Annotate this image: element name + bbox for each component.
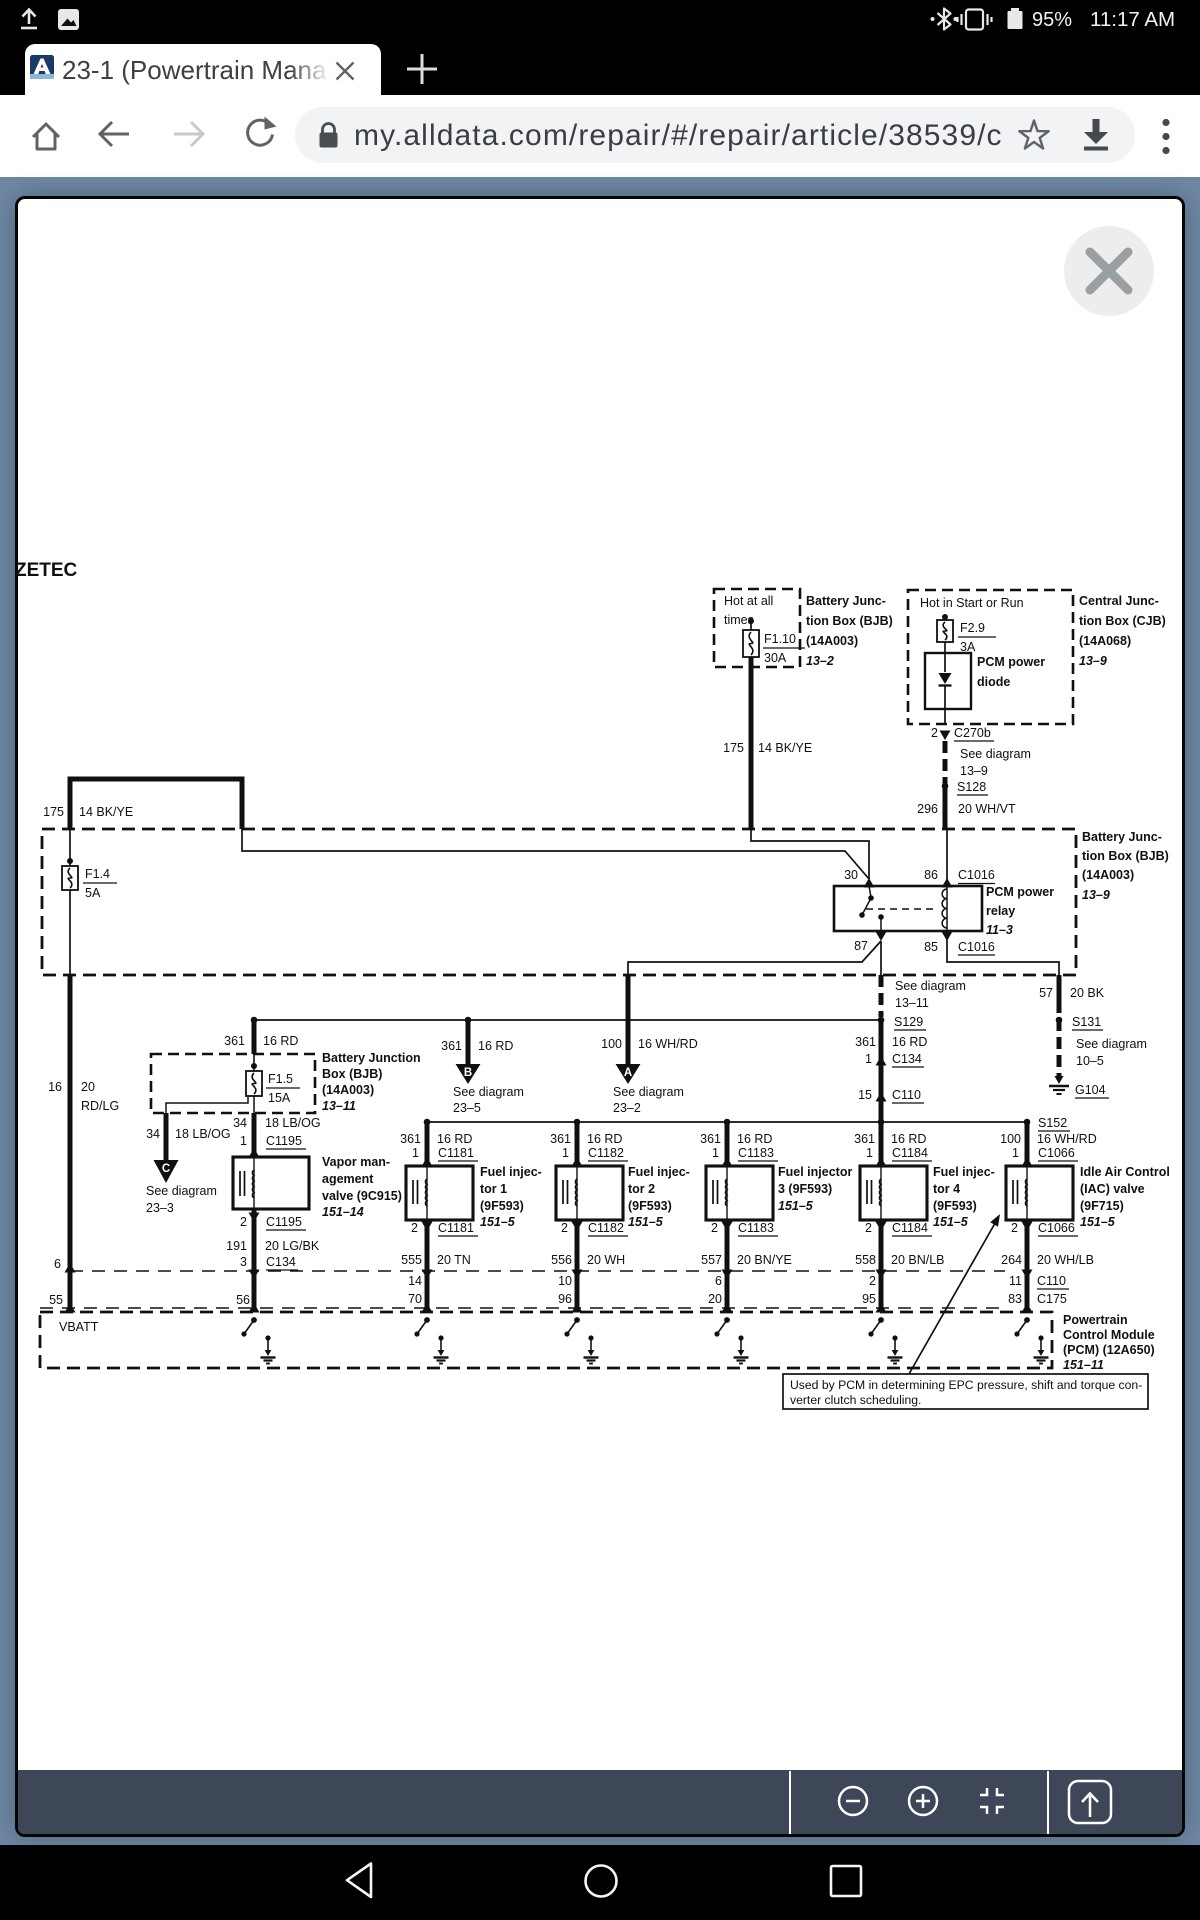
svg-text:C1016: C1016 [958, 940, 995, 954]
svg-text:95: 95 [862, 1292, 876, 1306]
svg-text:151–5: 151–5 [1080, 1215, 1116, 1229]
svg-text:2: 2 [561, 1221, 568, 1235]
svg-text:relay: relay [986, 904, 1015, 918]
svg-text:87: 87 [854, 939, 868, 953]
svg-text:C1183: C1183 [738, 1221, 774, 1235]
svg-text:Vapor man-: Vapor man- [322, 1155, 390, 1169]
svg-text:tion Box (BJB): tion Box (BJB) [806, 614, 893, 628]
svg-text:556: 556 [551, 1253, 572, 1267]
svg-text:S152: S152 [1038, 1116, 1067, 1130]
svg-text:Central Junc-: Central Junc- [1079, 594, 1159, 608]
svg-text:F2.9: F2.9 [960, 621, 985, 635]
svg-text:Hot at all: Hot at all [724, 594, 773, 608]
svg-text:(IAC) valve: (IAC) valve [1080, 1182, 1145, 1196]
svg-text:(9F593): (9F593) [480, 1199, 524, 1213]
svg-text:F1.4: F1.4 [85, 867, 110, 881]
svg-text:151–14: 151–14 [322, 1205, 364, 1219]
svg-text:C1066: C1066 [1038, 1146, 1075, 1160]
svg-text:30A: 30A [764, 651, 787, 665]
svg-text:16 RD: 16 RD [478, 1039, 513, 1053]
svg-text:16 RD: 16 RD [263, 1034, 298, 1048]
svg-text:14 BK/YE: 14 BK/YE [79, 805, 133, 819]
svg-text:Control Module: Control Module [1063, 1328, 1155, 1342]
svg-text:151–5: 151–5 [628, 1215, 664, 1229]
svg-text:F1.5: F1.5 [268, 1072, 293, 1086]
svg-text:20: 20 [81, 1080, 95, 1094]
svg-text:Fuel injec-: Fuel injec- [933, 1165, 995, 1179]
svg-text:14: 14 [408, 1274, 422, 1288]
svg-text:151–11: 151–11 [1063, 1358, 1104, 1372]
svg-text:tion Box (BJB): tion Box (BJB) [1082, 849, 1169, 863]
svg-text:PCM power: PCM power [977, 655, 1045, 669]
svg-text:Battery Junction: Battery Junction [322, 1051, 421, 1065]
svg-text:verter clutch scheduling.: verter clutch scheduling. [790, 1393, 921, 1407]
svg-text:16 WH/RD: 16 WH/RD [1037, 1132, 1097, 1146]
svg-text:C1066: C1066 [1038, 1221, 1075, 1235]
svg-text:(14A003): (14A003) [322, 1083, 374, 1097]
svg-text:11: 11 [1009, 1274, 1022, 1288]
svg-text:C1184: C1184 [892, 1221, 928, 1235]
svg-text:57: 57 [1039, 986, 1053, 1000]
svg-text:2: 2 [411, 1221, 418, 1235]
svg-text:2: 2 [931, 726, 938, 740]
svg-text:2: 2 [865, 1221, 872, 1235]
svg-text:96: 96 [558, 1292, 572, 1306]
svg-text:C1181: C1181 [438, 1221, 474, 1235]
svg-text:361: 361 [224, 1034, 245, 1048]
svg-text:14 BK/YE: 14 BK/YE [758, 741, 812, 755]
svg-text:20 TN: 20 TN [437, 1253, 471, 1267]
svg-text:S129: S129 [894, 1015, 923, 1029]
svg-text:16 RD: 16 RD [437, 1132, 472, 1146]
svg-text:361: 361 [855, 1035, 876, 1049]
svg-text:Idle Air Control: Idle Air Control [1080, 1165, 1170, 1179]
svg-text:F1.10: F1.10 [764, 632, 796, 646]
svg-text:2: 2 [869, 1274, 876, 1288]
svg-text:tor 2: tor 2 [628, 1182, 655, 1196]
svg-text:16 RD: 16 RD [737, 1132, 772, 1146]
svg-text:23–3: 23–3 [146, 1201, 174, 1215]
svg-text:Fuel injec-: Fuel injec- [628, 1165, 690, 1179]
svg-text:16 RD: 16 RD [892, 1035, 927, 1049]
svg-text:20 BK: 20 BK [1070, 986, 1105, 1000]
svg-text:See diagram: See diagram [146, 1184, 217, 1198]
svg-text:95%: 95% [1032, 9, 1072, 31]
svg-text:555: 555 [401, 1253, 422, 1267]
svg-text:C110: C110 [892, 1088, 921, 1102]
svg-text:C1181: C1181 [438, 1146, 474, 1160]
svg-text:ZETEC: ZETEC [15, 560, 78, 581]
svg-text:86: 86 [924, 868, 938, 882]
svg-text:C1195: C1195 [266, 1215, 302, 1229]
svg-text:13–11: 13–11 [322, 1099, 356, 1113]
svg-text:23–2: 23–2 [613, 1101, 641, 1115]
svg-text:18 LB/OG: 18 LB/OG [175, 1127, 231, 1141]
svg-text:83: 83 [1008, 1292, 1022, 1306]
svg-text:5A: 5A [85, 886, 101, 900]
svg-text:20 WH/LB: 20 WH/LB [1037, 1253, 1094, 1267]
svg-text:Battery Junc-: Battery Junc- [1082, 830, 1162, 844]
svg-text:20: 20 [708, 1292, 722, 1306]
svg-text:13–9: 13–9 [1082, 888, 1110, 902]
svg-text:13–9: 13–9 [1079, 654, 1107, 668]
svg-text:100: 100 [601, 1037, 622, 1051]
svg-text:C1182: C1182 [588, 1221, 624, 1235]
svg-text:1: 1 [712, 1146, 719, 1160]
svg-text:16: 16 [48, 1080, 62, 1094]
svg-text:20 BN/YE: 20 BN/YE [737, 1253, 792, 1267]
svg-text:70: 70 [408, 1292, 422, 1306]
svg-text:VBATT: VBATT [59, 1320, 99, 1334]
svg-text:tor 1: tor 1 [480, 1182, 507, 1196]
svg-text:557: 557 [701, 1253, 722, 1267]
svg-text:See diagram: See diagram [895, 979, 966, 993]
svg-text:264: 264 [1001, 1253, 1022, 1267]
svg-text:(14A003): (14A003) [1082, 868, 1134, 882]
svg-text:1: 1 [412, 1146, 419, 1160]
svg-text:C110: C110 [1037, 1274, 1066, 1288]
svg-text:30: 30 [844, 868, 858, 882]
svg-text:175: 175 [723, 741, 744, 755]
svg-text:agement: agement [322, 1172, 374, 1186]
svg-text:Fuel injec-: Fuel injec- [480, 1165, 542, 1179]
svg-text:296: 296 [917, 802, 938, 816]
svg-text:(9F593): (9F593) [628, 1199, 672, 1213]
svg-text:A: A [624, 1067, 632, 1079]
svg-text:Hot in Start or Run: Hot in Start or Run [920, 596, 1024, 610]
svg-text:C134: C134 [892, 1052, 922, 1066]
svg-text:100: 100 [1000, 1132, 1021, 1146]
svg-text:34: 34 [146, 1127, 160, 1141]
svg-text:C270b: C270b [954, 726, 991, 740]
svg-text:See diagram: See diagram [1076, 1037, 1147, 1051]
svg-text:85: 85 [924, 940, 938, 954]
svg-text:23–5: 23–5 [453, 1101, 481, 1115]
svg-text:(14A068): (14A068) [1079, 634, 1131, 648]
svg-text:361: 361 [400, 1132, 421, 1146]
svg-text:11–3: 11–3 [986, 923, 1013, 937]
svg-text:See diagram: See diagram [960, 747, 1031, 761]
svg-text:C: C [162, 1163, 170, 1175]
svg-text:C1182: C1182 [588, 1146, 624, 1160]
svg-text:Fuel injector: Fuel injector [778, 1165, 852, 1179]
svg-text:10: 10 [558, 1274, 572, 1288]
svg-text:(PCM) (12A650): (PCM) (12A650) [1063, 1343, 1155, 1357]
svg-text:PCM power: PCM power [986, 885, 1054, 899]
svg-text:See diagram: See diagram [453, 1085, 524, 1099]
svg-text:20 WH: 20 WH [587, 1253, 625, 1267]
svg-text:361: 361 [550, 1132, 571, 1146]
svg-text:151–5: 151–5 [933, 1215, 969, 1229]
svg-text:1: 1 [1012, 1146, 1019, 1160]
svg-text:15: 15 [858, 1088, 872, 1102]
svg-text:13–9: 13–9 [960, 764, 988, 778]
svg-text:361: 361 [700, 1132, 721, 1146]
svg-text:Box (BJB): Box (BJB) [322, 1067, 382, 1081]
svg-text:15A: 15A [268, 1091, 291, 1105]
svg-text:2: 2 [1011, 1221, 1018, 1235]
svg-text:Powertrain: Powertrain [1063, 1313, 1128, 1327]
svg-text:C1016: C1016 [958, 868, 995, 882]
svg-text:RD/LG: RD/LG [81, 1099, 119, 1113]
svg-text:34: 34 [233, 1116, 247, 1130]
svg-text:2: 2 [711, 1221, 718, 1235]
svg-text:1: 1 [562, 1146, 569, 1160]
svg-text:Battery Junc-: Battery Junc- [806, 594, 886, 608]
svg-text:16 RD: 16 RD [891, 1132, 926, 1146]
svg-text:23-1 (Powertrain Mana: 23-1 (Powertrain Mana [62, 55, 327, 85]
svg-text:tor 4: tor 4 [933, 1182, 960, 1196]
svg-text:S131: S131 [1072, 1015, 1101, 1029]
svg-text:20 BN/LB: 20 BN/LB [891, 1253, 945, 1267]
svg-text:361: 361 [854, 1132, 875, 1146]
svg-text:(9F593): (9F593) [933, 1199, 977, 1213]
svg-text:11:17 AM: 11:17 AM [1090, 8, 1175, 31]
svg-text:175: 175 [43, 805, 64, 819]
svg-text:B: B [464, 1067, 472, 1079]
svg-text:valve (9C915): valve (9C915) [322, 1189, 402, 1203]
svg-text:13–11: 13–11 [895, 996, 929, 1010]
svg-text:151–5: 151–5 [778, 1199, 814, 1213]
svg-text:2: 2 [240, 1215, 247, 1229]
svg-text:55: 55 [49, 1293, 63, 1307]
svg-text:C1183: C1183 [738, 1146, 774, 1160]
svg-text:1: 1 [866, 1146, 873, 1160]
svg-text:G104: G104 [1075, 1083, 1106, 1097]
svg-text:diode: diode [977, 675, 1010, 689]
svg-text:C1195: C1195 [266, 1134, 302, 1148]
svg-text:151–5: 151–5 [480, 1215, 516, 1229]
svg-text:3: 3 [240, 1255, 247, 1269]
svg-text:1: 1 [865, 1052, 872, 1066]
svg-text:6: 6 [715, 1274, 722, 1288]
svg-text:(14A003): (14A003) [806, 634, 858, 648]
svg-text:See diagram: See diagram [613, 1085, 684, 1099]
svg-text:C175: C175 [1037, 1292, 1067, 1306]
svg-text:1: 1 [240, 1134, 247, 1148]
svg-text:(9F715): (9F715) [1080, 1199, 1124, 1213]
svg-text:20 WH/VT: 20 WH/VT [958, 802, 1016, 816]
svg-text:C1184: C1184 [892, 1146, 928, 1160]
svg-text:6: 6 [54, 1257, 61, 1271]
svg-text:Used by PCM in determining EPC: Used by PCM in determining EPC pressure,… [790, 1378, 1142, 1392]
svg-text:18 LB/OG: 18 LB/OG [265, 1116, 321, 1130]
svg-text:191: 191 [226, 1239, 247, 1253]
svg-text:558: 558 [855, 1253, 876, 1267]
svg-text:tion Box (CJB): tion Box (CJB) [1079, 614, 1166, 628]
svg-text:20 LG/BK: 20 LG/BK [265, 1239, 320, 1253]
svg-text:3 (9F593): 3 (9F593) [778, 1182, 832, 1196]
svg-text:my.alldata.com/repair/#/repair: my.alldata.com/repair/#/repair/article/3… [354, 119, 1003, 152]
svg-text:56: 56 [236, 1293, 250, 1307]
svg-text:16 RD: 16 RD [587, 1132, 622, 1146]
svg-text:16 WH/RD: 16 WH/RD [638, 1037, 698, 1051]
svg-text:13–2: 13–2 [806, 654, 834, 668]
svg-text:S128: S128 [957, 780, 986, 794]
svg-text:361: 361 [441, 1039, 462, 1053]
svg-text:C134: C134 [266, 1255, 296, 1269]
svg-text:10–5: 10–5 [1076, 1054, 1104, 1068]
